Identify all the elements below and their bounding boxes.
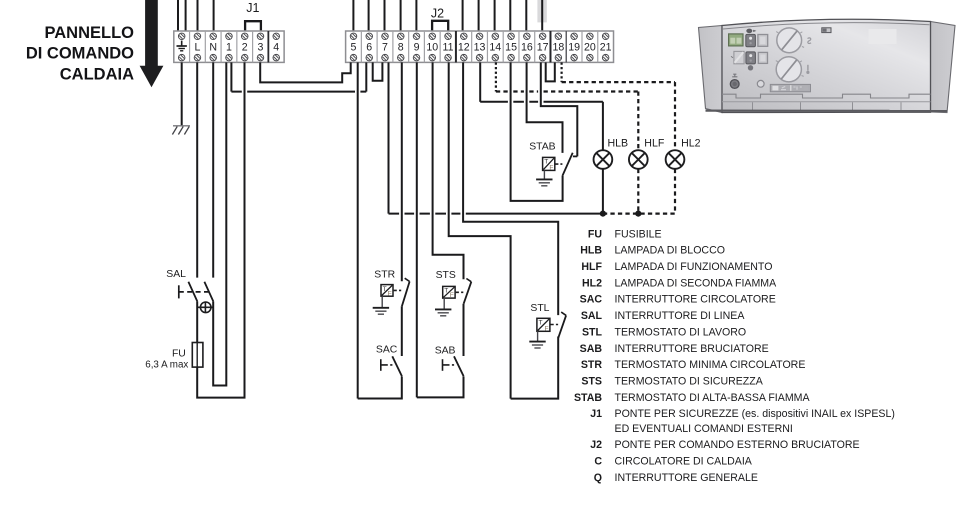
terminal 16 (block 2) — [524, 33, 531, 40]
junction dot at HLF common — [635, 211, 641, 217]
wire lamp HLF bottom (dashed) — [637, 169, 639, 214]
wire terminal 11 to STL loop left — [449, 62, 511, 398]
svg-text:2: 2 — [242, 41, 248, 53]
terminal 1 (block 1) — [226, 33, 233, 40]
svg-text:STS: STS — [581, 376, 602, 388]
svg-text:F: F — [549, 165, 553, 172]
svg-text:LAMPADA DI SECONDA FIAMMA: LAMPADA DI SECONDA FIAMMA — [615, 277, 778, 289]
svg-text:SAB: SAB — [435, 346, 456, 357]
STL ground stem — [537, 331, 539, 341]
wire SAB to loop bottom — [417, 376, 464, 397]
STL link (dashed) — [551, 324, 559, 326]
wire top feed terminal 5 — [352, 0, 354, 31]
svg-text:CALDAIA: CALDAIA — [60, 66, 134, 84]
svg-text:FU: FU — [588, 228, 602, 240]
svg-text:L: L — [194, 41, 200, 53]
terminal 20 (block 2) — [587, 33, 594, 40]
wire HLB-HLF-HL2 common (dashed) — [603, 213, 675, 215]
wire STR to SAC — [401, 306, 403, 356]
wire terminal 8 down to STR contact — [401, 62, 403, 281]
svg-text:16: 16 — [521, 41, 533, 53]
svg-text:PONTE PER SICUREZZE (es. dispo: PONTE PER SICUREZZE (es. dispositivi INA… — [615, 408, 895, 420]
wire lamp common to HLB (solid) — [389, 213, 603, 215]
wire top feed terminal 14 — [494, 0, 496, 31]
svg-text:6,3 A max: 6,3 A max — [145, 359, 188, 370]
terminal N (block 1) — [210, 33, 217, 40]
thermostat STL contact blade — [558, 315, 566, 337]
wire fuse to terminal 2 (bottom loop) — [197, 62, 244, 397]
svg-text:Q: Q — [594, 472, 602, 484]
thermostat STR sensor box — [381, 285, 393, 297]
terminal block J1 strip (earth,L,N,1,2,3,4) — [174, 31, 284, 62]
svg-text:C: C — [594, 456, 602, 468]
STS ground stem — [443, 298, 445, 309]
lamp HLF — [629, 150, 648, 169]
svg-text:21: 21 — [600, 41, 612, 53]
STS link (dashed) — [456, 291, 464, 293]
svg-text:PANNELLO: PANNELLO — [44, 24, 134, 42]
svg-text:12: 12 — [458, 41, 470, 53]
svg-text:INTERRUTTORE GENERALE: INTERRUTTORE GENERALE — [615, 472, 758, 484]
terminal 8 (block 2) — [398, 33, 405, 40]
svg-text:HLB: HLB — [580, 245, 602, 257]
wire STL to loop bottom — [511, 337, 559, 399]
wire top feed N — [213, 0, 215, 31]
terminal L (block 1) — [194, 33, 201, 40]
svg-text:3: 3 — [258, 41, 264, 53]
arrow down (mains supply into panel) — [140, 0, 164, 87]
wire SAL pole2 to terminal 1 (bottom loop) — [213, 62, 226, 385]
svg-text:STAB: STAB — [529, 142, 555, 153]
terminal 6 (block 2) — [366, 33, 373, 40]
wire terminal 18 to lamp HL2 (dashed) — [560, 62, 562, 82]
title PANNELLO DI COMANDO CALDAIA — [26, 24, 134, 84]
svg-text:T: T — [383, 286, 387, 293]
lamp HLB — [594, 150, 613, 169]
svg-text:TERMOSTATO DI LAVORO: TERMOSTATO DI LAVORO — [615, 326, 747, 338]
svg-text:INTERRUTTORE BRUCIATORE: INTERRUTTORE BRUCIATORE — [615, 343, 769, 355]
jumper terminals 17-18 (bottom) — [546, 62, 555, 81]
svg-text:STR: STR — [374, 270, 395, 281]
svg-text:STL: STL — [582, 326, 603, 338]
svg-text:CIRCOLATORE DI CALDAIA: CIRCOLATORE DI CALDAIA — [615, 456, 753, 468]
svg-text:7: 7 — [382, 41, 388, 53]
terminal earth (block 1) — [178, 33, 185, 40]
wire terminal 16 to STAB throw 1 — [527, 62, 563, 152]
thermostat STAB changeover blade — [562, 153, 572, 176]
wire top feed terminal 12 — [462, 0, 464, 31]
svg-text:HLF: HLF — [581, 261, 602, 273]
wire top feed earth a — [177, 0, 179, 31]
terminal 3 (block 1) — [257, 33, 264, 40]
wire lamp HLB bottom — [602, 169, 604, 214]
switch SAB blade — [454, 356, 464, 376]
svg-text:SAL: SAL — [166, 269, 186, 280]
svg-text:19: 19 — [568, 41, 580, 53]
svg-text:T: T — [544, 159, 548, 166]
wire top feed L — [197, 0, 199, 31]
wire terminal 7 down (lamp common) — [388, 62, 390, 213]
terminal 14 (block 2) — [492, 33, 499, 40]
svg-text:STAB: STAB — [574, 392, 602, 404]
wire terminal 10 to STS top — [433, 62, 464, 279]
terminal 9 (block 2) — [413, 33, 420, 40]
svg-text:J2: J2 — [590, 439, 602, 451]
ground (STR) — [373, 308, 389, 314]
svg-text:J1: J1 — [590, 408, 602, 420]
SAL indicator circle — [197, 302, 213, 313]
lamp HL2 — [666, 150, 685, 169]
thermostat STS sensor box — [443, 286, 455, 298]
wire top feed terminal 13 — [478, 0, 480, 31]
wire terminal 12 to STL contact — [463, 62, 558, 315]
terminal 15 (block 2) — [508, 33, 514, 40]
svg-text:15: 15 — [505, 41, 517, 53]
svg-text:F: F — [450, 292, 454, 299]
svg-text:TERMOSTATO DI ALTA-BASSA FIAMM: TERMOSTATO DI ALTA-BASSA FIAMMA — [615, 392, 811, 404]
svg-text:9: 9 — [414, 41, 420, 53]
svg-text:HLB: HLB — [608, 138, 629, 150]
wire terminal 14 to lamp HLF (dashed) — [495, 62, 497, 91]
svg-text:HL2: HL2 — [582, 277, 602, 289]
wire terminal 5 down (STR loop left) — [357, 62, 359, 398]
jumper terminals 6-7 (bottom) — [373, 62, 383, 80]
STAB link (dashed) — [555, 163, 562, 165]
svg-text:13: 13 — [474, 41, 486, 53]
terminal 19 (block 2) — [571, 33, 578, 40]
svg-text:18: 18 — [552, 41, 564, 53]
ground (STL) — [529, 342, 545, 348]
svg-text:FUSIBILE: FUSIBILE — [615, 228, 662, 240]
wire top feed terminal 8 — [400, 0, 402, 31]
svg-text:LAMPADA DI BLOCCO: LAMPADA DI BLOCCO — [615, 245, 725, 257]
svg-text:PONTE PER COMANDO ESTERNO BRUC: PONTE PER COMANDO ESTERNO BRUCIATORE — [615, 439, 860, 451]
svg-text:6: 6 — [366, 41, 372, 53]
svg-text:HL2: HL2 — [681, 138, 701, 150]
terminal 4 (block 1) — [273, 33, 280, 40]
switch SAC blade — [392, 356, 402, 376]
svg-text:11: 11 — [443, 41, 454, 53]
svg-text:F: F — [388, 290, 392, 297]
switch SAL pole 1 blade — [188, 282, 197, 302]
ground (STAB) — [536, 179, 552, 185]
svg-text:DI COMANDO: DI COMANDO — [26, 45, 134, 63]
svg-text:8: 8 — [398, 41, 404, 53]
wire top feed terminal 9 — [415, 0, 417, 31]
gray band above terminal 17 — [537, 0, 546, 22]
svg-text:10: 10 — [426, 41, 438, 53]
svg-text:INTERRUTTORE DI LINEA: INTERRUTTORE DI LINEA — [615, 310, 746, 322]
wire N terminal to SAL pole 2 — [212, 62, 214, 277]
STR link (dashed) — [394, 289, 402, 291]
wire SAL pole1 to fuse FU — [196, 302, 198, 343]
wire terminal 13 to lamp HLB — [479, 62, 481, 101]
wire top feed earth b — [185, 0, 187, 31]
terminal 17 (block 2) — [539, 33, 546, 40]
svg-text:17: 17 — [537, 41, 549, 53]
svg-text:T: T — [444, 288, 448, 295]
svg-text:INTERRUTTORE CIRCOLATORE: INTERRUTTORE CIRCOLATORE — [615, 294, 776, 306]
terminal block J2 strip (5..21) — [346, 31, 614, 62]
terminal 5 (block 2) — [350, 33, 357, 40]
wire terminal 3 to terminal 5 — [260, 62, 351, 82]
wire L terminal to SAL pole 1 — [196, 62, 198, 277]
terminal 10 (block 2) — [429, 33, 436, 40]
svg-text:SAB: SAB — [580, 343, 603, 355]
SAC manual link — [380, 359, 382, 371]
svg-text:STR: STR — [581, 359, 603, 371]
ground (STS) — [435, 309, 451, 315]
thermostat STR contact blade — [402, 282, 410, 307]
SAB manual link — [442, 359, 444, 371]
wire top feed terminal 17 — [541, 0, 543, 31]
wire earth terminal to chassis ground — [181, 62, 183, 125]
wire terminal 9 down (STS loop left) — [416, 62, 418, 397]
svg-text:5: 5 — [351, 41, 357, 53]
svg-text:TERMOSTATO MINIMA CIRCOLATORE: TERMOSTATO MINIMA CIRCOLATORE — [615, 359, 806, 371]
svg-text:SAL: SAL — [581, 310, 603, 322]
svg-text:STL: STL — [530, 303, 549, 314]
svg-text:TERMOSTATO DI SICUREZZA: TERMOSTATO DI SICUREZZA — [615, 376, 764, 388]
svg-text:STS: STS — [436, 270, 456, 281]
svg-text:SAC: SAC — [580, 294, 603, 306]
terminal 18 (block 2) — [555, 33, 562, 40]
STAB ground stem — [543, 170, 545, 179]
svg-text:20: 20 — [584, 41, 596, 53]
svg-text:T: T — [539, 320, 543, 327]
svg-text:14: 14 — [489, 41, 501, 53]
svg-text:HLF: HLF — [644, 138, 665, 150]
terminal 12 (block 2) — [461, 33, 468, 40]
junction dot at HLB common — [600, 211, 606, 217]
terminal 21 (block 2) — [602, 33, 609, 40]
jumper J2 (terminals 10-11) — [432, 21, 448, 31]
wire lamp HL2 bottom (dashed) — [674, 169, 676, 214]
thermostat STS contact blade — [464, 282, 472, 304]
wire terminal 1 to terminal 6 — [230, 62, 232, 91]
svg-text:LAMPADA DI FUNZIONAMENTO: LAMPADA DI FUNZIONAMENTO — [615, 261, 773, 273]
chassis ground symbol — [172, 126, 190, 135]
wire top feed terminal 15 — [509, 0, 511, 31]
wire terminal 17 to STAB throw 2 — [541, 62, 578, 156]
svg-text:1: 1 — [226, 41, 232, 53]
switch SAL pole 2 blade — [204, 282, 213, 302]
wire top feed terminal 7 — [384, 0, 386, 31]
wire top feed terminal 16 — [525, 0, 527, 31]
thermostat STAB sensor box — [543, 157, 555, 170]
switch SAL mechanical link (dashed) — [178, 285, 180, 298]
svg-text:F: F — [545, 325, 549, 332]
wire top feed terminal 6 — [368, 0, 370, 31]
terminal 7 (block 2) — [382, 33, 389, 40]
svg-text:ED EVENTUALI COMANDI ESTERNI: ED EVENTUALI COMANDI ESTERNI — [615, 423, 793, 435]
svg-text:J2: J2 — [431, 7, 444, 21]
terminal 13 (block 2) — [476, 33, 483, 40]
svg-text:J1: J1 — [246, 1, 259, 15]
wire STS to SAB — [463, 304, 465, 356]
terminal 11 (block 2) — [445, 33, 452, 40]
STR ground stem — [381, 296, 383, 308]
fuse FU — [192, 343, 203, 368]
boiler control panel illustration — [699, 19, 956, 112]
svg-text:4: 4 — [273, 41, 279, 53]
svg-text:FU: FU — [172, 348, 186, 359]
jumper J1 (terminals 2-3) — [245, 21, 261, 31]
thermostat STL sensor box — [537, 318, 550, 331]
legend component list — [574, 228, 895, 483]
terminal 2 (block 1) — [241, 33, 248, 40]
wire terminal 15 to STAB common — [511, 62, 563, 201]
svg-text:SAC: SAC — [376, 345, 398, 356]
svg-text:N: N — [209, 41, 217, 53]
wire SAC to loop bottom — [358, 376, 402, 398]
